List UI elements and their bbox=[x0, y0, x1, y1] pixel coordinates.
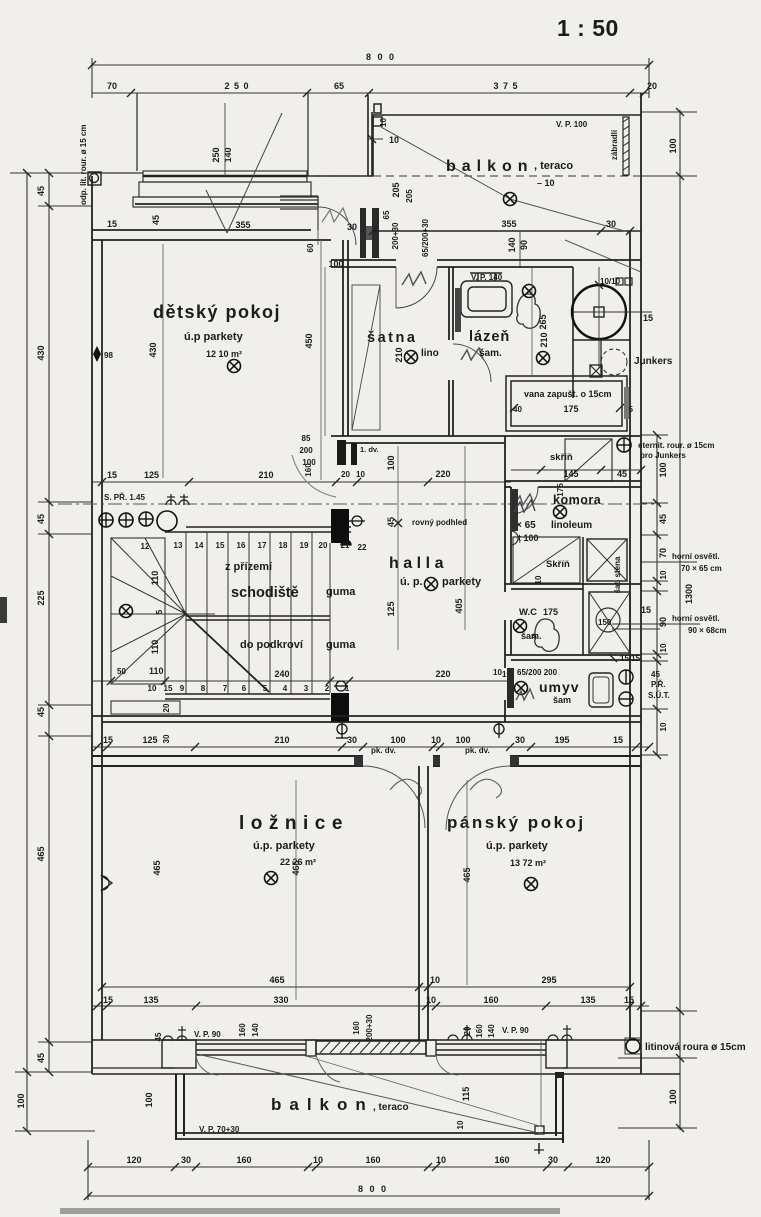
svg-text:450: 450 bbox=[304, 333, 314, 348]
svg-text:5: 5 bbox=[155, 609, 164, 614]
svg-text:140: 140 bbox=[487, 1024, 496, 1038]
svg-text:100: 100 bbox=[144, 1092, 154, 1107]
entrance steps bbox=[280, 196, 318, 230]
svg-text:Skříň: Skříň bbox=[546, 559, 570, 570]
bottom wall inner face bbox=[92, 1039, 641, 1041]
vana bathtub bbox=[506, 376, 627, 431]
vana side hatch bbox=[624, 387, 629, 419]
outer left wall bbox=[92, 176, 102, 1074]
svg-text:210: 210 bbox=[394, 347, 404, 362]
entrance door jambs (dark) bbox=[360, 208, 366, 258]
svg-text:150: 150 bbox=[598, 618, 612, 627]
svg-text:140: 140 bbox=[507, 237, 517, 252]
svg-text:2 5 0: 2 5 0 bbox=[224, 81, 249, 91]
entrance pillar bbox=[374, 104, 381, 113]
svg-text:65: 65 bbox=[382, 210, 391, 219]
svg-text:guma: guma bbox=[326, 639, 356, 651]
svg-text:20: 20 bbox=[162, 703, 171, 712]
satna door arc bbox=[396, 267, 437, 308]
satna closet diagonals bbox=[352, 285, 380, 430]
svg-text:V. P. 100: V. P. 100 bbox=[556, 120, 588, 129]
svg-text:225: 225 bbox=[36, 590, 46, 605]
svg-text:P.Ř.: P.Ř. bbox=[651, 680, 666, 689]
svg-text:125: 125 bbox=[386, 601, 396, 616]
svg-text:3 7 5: 3 7 5 bbox=[493, 81, 518, 91]
svg-text:skříň: skříň bbox=[550, 452, 573, 463]
leader V pointer in terrace bbox=[206, 113, 282, 233]
svg-text:30: 30 bbox=[181, 1155, 191, 1165]
eternit symbol bbox=[617, 438, 631, 452]
svg-text:160: 160 bbox=[352, 1021, 361, 1035]
stair landing bbox=[111, 538, 165, 684]
svg-text:2: 2 bbox=[325, 684, 330, 693]
top dimension line 800 bbox=[92, 58, 649, 98]
flag symbol top bbox=[341, 516, 365, 545]
svg-text:10: 10 bbox=[659, 570, 668, 579]
svg-text:200+30: 200+30 bbox=[365, 1014, 374, 1041]
flag symbols at chimney 2 bbox=[334, 681, 348, 738]
litinova roura bbox=[626, 1039, 640, 1053]
svg-text:6: 6 bbox=[242, 684, 247, 693]
komora door arc bbox=[511, 487, 538, 514]
svg-text:160: 160 bbox=[483, 995, 498, 1005]
svg-text:175: 175 bbox=[563, 404, 578, 414]
svg-text:100: 100 bbox=[16, 1093, 26, 1108]
wall wc inner vertical bbox=[582, 537, 584, 655]
svg-text:45: 45 bbox=[658, 514, 668, 524]
detsky pokoj 430 dim lines bbox=[162, 244, 164, 478]
svg-text:vana zapušt. o 15cm: vana zapušt. o 15cm bbox=[524, 389, 612, 399]
svg-text:1 : 50: 1 : 50 bbox=[557, 15, 619, 41]
svg-text:20: 20 bbox=[341, 470, 350, 479]
svg-text:10: 10 bbox=[313, 1155, 323, 1165]
shower / sprcha box bbox=[589, 592, 630, 653]
svg-text:140: 140 bbox=[251, 1023, 260, 1037]
svg-text:65/200 200: 65/200 200 bbox=[517, 668, 558, 677]
svg-text:120: 120 bbox=[126, 1155, 141, 1165]
umyv room bbox=[515, 682, 528, 695]
svg-text:pk. dv.: pk. dv. bbox=[465, 746, 490, 755]
svg-text:, teraco: , teraco bbox=[373, 1102, 409, 1113]
balcony left pillar bbox=[373, 117, 382, 126]
svg-text:21: 21 bbox=[341, 541, 350, 550]
svg-text:220: 220 bbox=[435, 669, 450, 679]
svg-text:10: 10 bbox=[456, 1120, 465, 1129]
svg-text:10: 10 bbox=[534, 575, 543, 584]
svg-text:160: 160 bbox=[304, 463, 313, 477]
svg-text:10: 10 bbox=[148, 684, 157, 693]
svg-text:linoleum: linoleum bbox=[551, 520, 592, 531]
svg-text:45: 45 bbox=[36, 707, 46, 717]
window 1 bbox=[196, 1044, 306, 1055]
svg-text:10: 10 bbox=[426, 995, 436, 1005]
svg-text:schodiště: schodiště bbox=[231, 585, 299, 601]
svg-text:20: 20 bbox=[647, 81, 657, 91]
svg-text:lázeň: lázeň bbox=[469, 329, 510, 345]
bottom total 800 line bbox=[88, 1195, 649, 1197]
up arrow diagonal bbox=[186, 614, 269, 692]
svg-text:V. P. 90: V. P. 90 bbox=[194, 1030, 221, 1039]
wall halla/komora block bbox=[505, 436, 511, 722]
tread numbers top bbox=[141, 541, 367, 552]
svg-text:100: 100 bbox=[390, 735, 405, 745]
bottom dimension chain 120/30/160/10/160/10/160/30/120 bbox=[88, 1140, 649, 1200]
pier mid1 bbox=[306, 1040, 316, 1056]
lazen door arc bbox=[453, 344, 491, 382]
lazen toilet bbox=[517, 294, 540, 328]
svg-text:220: 220 bbox=[435, 469, 450, 479]
svg-text:125: 125 bbox=[144, 470, 159, 480]
svg-text:465: 465 bbox=[269, 975, 284, 985]
top balcony slab bbox=[373, 115, 641, 231]
svg-text:× 65: × 65 bbox=[516, 520, 536, 531]
stair bottom rail bbox=[165, 694, 330, 699]
balcony centre mark bbox=[504, 193, 517, 206]
pier mid2 bbox=[426, 1040, 436, 1056]
svg-text:10: 10 bbox=[659, 643, 668, 652]
left dimension chain 45/430/45/225/45/465/45 bbox=[38, 173, 92, 1072]
door bump left wall bbox=[102, 876, 112, 890]
svg-text:405: 405 bbox=[454, 598, 464, 613]
svg-text:14: 14 bbox=[195, 541, 204, 550]
svg-text:15: 15 bbox=[613, 735, 623, 745]
svg-text:45: 45 bbox=[151, 215, 161, 225]
skrin niche above komora bbox=[565, 439, 612, 481]
wall komora/wc bbox=[505, 584, 641, 589]
svg-text:8: 8 bbox=[201, 684, 206, 693]
horni osvetl annotation 2 bbox=[612, 623, 700, 625]
svg-text:Junkers: Junkers bbox=[634, 356, 673, 367]
entrance scribble bbox=[322, 208, 348, 222]
svg-text:10: 10 bbox=[436, 1155, 446, 1165]
stair top rail bbox=[165, 527, 351, 532]
halla mid dim line bbox=[394, 519, 402, 527]
svg-text:19: 19 bbox=[300, 541, 309, 550]
svg-text:85: 85 bbox=[302, 434, 311, 443]
bottom balcony diagonal bbox=[197, 1054, 543, 1134]
svg-text:lino: lino bbox=[421, 348, 439, 359]
svg-text:200: 200 bbox=[299, 446, 313, 455]
svg-text:ú. p.: ú. p. bbox=[400, 576, 423, 588]
svg-text:100: 100 bbox=[668, 1089, 678, 1104]
svg-text:210: 210 bbox=[258, 470, 273, 480]
dim row above bedrooms bbox=[92, 746, 649, 748]
svg-text:15: 15 bbox=[624, 995, 634, 1005]
right dimension chain B 100 / 1300 / 100 bbox=[618, 110, 697, 1130]
svg-text:205: 205 bbox=[405, 189, 414, 203]
svg-text:120: 120 bbox=[595, 1155, 610, 1165]
svg-text:210: 210 bbox=[274, 735, 289, 745]
svg-text:guma: guma bbox=[326, 586, 356, 598]
svg-text:125: 125 bbox=[142, 735, 157, 745]
window arcs bottom bbox=[196, 1055, 218, 1075]
svg-text:45: 45 bbox=[651, 670, 660, 679]
svg-text:8 0 0: 8 0 0 bbox=[358, 1184, 388, 1194]
svg-text:eternit. rour. ø 15cm: eternit. rour. ø 15cm bbox=[638, 441, 714, 450]
svg-text:10: 10 bbox=[430, 975, 440, 985]
svg-text:10: 10 bbox=[431, 735, 441, 745]
svg-text:465: 465 bbox=[152, 860, 162, 875]
svg-text:135: 135 bbox=[580, 995, 595, 1005]
svg-text:10: 10 bbox=[493, 668, 502, 677]
svg-text:1. dv.: 1. dv. bbox=[360, 445, 379, 454]
svg-text:160: 160 bbox=[475, 1024, 484, 1038]
dim row 15/135/330/10/160/135/15 bbox=[92, 1005, 649, 1007]
svg-text:22: 22 bbox=[358, 543, 367, 552]
svg-text:pk. dv.: pk. dv. bbox=[371, 746, 396, 755]
svg-text:W.C: W.C bbox=[519, 607, 537, 618]
svg-text:140: 140 bbox=[223, 147, 233, 162]
svg-text:V. P. 140: V. P. 140 bbox=[471, 273, 503, 282]
svg-text:18: 18 bbox=[279, 541, 288, 550]
pier left bbox=[162, 1040, 196, 1068]
horni osvetl annotation 1 bbox=[641, 561, 697, 563]
porch columns bbox=[99, 513, 113, 527]
svg-text:430: 430 bbox=[36, 345, 46, 360]
svg-text:100: 100 bbox=[386, 455, 396, 470]
svg-text:horní osvětl.: horní osvětl. bbox=[672, 552, 720, 561]
svg-text:S.Ú.T.: S.Ú.T. bbox=[648, 691, 670, 700]
svg-text:17: 17 bbox=[258, 541, 267, 550]
window 3 bbox=[436, 1044, 546, 1055]
balcony right hatched wall bbox=[623, 117, 629, 175]
svg-text:50: 50 bbox=[117, 667, 126, 676]
svg-text:, teraco: , teraco bbox=[534, 160, 573, 172]
svg-text:ț 100: ț 100 bbox=[518, 533, 539, 543]
svg-text:rovný podhled: rovný podhled bbox=[412, 518, 467, 527]
dim row at stair bottom bbox=[92, 680, 511, 682]
svg-text:265: 265 bbox=[538, 314, 548, 329]
svg-text:110: 110 bbox=[149, 666, 164, 676]
entrance door arc bbox=[318, 207, 356, 245]
svg-text:9: 9 bbox=[180, 684, 185, 693]
svg-text:ložnice: ložnice bbox=[239, 813, 349, 834]
svg-text:15: 15 bbox=[641, 605, 651, 615]
svg-text:15: 15 bbox=[107, 219, 117, 229]
svg-text:115: 115 bbox=[461, 1087, 471, 1102]
svg-text:430: 430 bbox=[148, 342, 158, 357]
black chimney 2 bbox=[331, 693, 349, 722]
anchor marks bbox=[166, 494, 189, 505]
umyv jamb dark bbox=[507, 668, 514, 708]
svg-text:175: 175 bbox=[543, 607, 558, 617]
svg-text:45: 45 bbox=[36, 1053, 46, 1063]
lazen centre mark bbox=[537, 352, 550, 365]
svg-text:1300: 1300 bbox=[684, 584, 694, 604]
stair wall right with black chimney 1 bbox=[331, 509, 349, 543]
svg-text:z přízemí: z přízemí bbox=[225, 561, 273, 573]
dim row 465/10/295 bbox=[102, 986, 630, 988]
svg-text:12 10 m²: 12 10 m² bbox=[206, 349, 242, 359]
stove circle bbox=[572, 285, 626, 339]
svg-text:205: 205 bbox=[391, 182, 401, 197]
svg-text:250: 250 bbox=[211, 147, 221, 162]
lazen wall hatch bbox=[455, 288, 461, 332]
svg-text:parkety: parkety bbox=[442, 576, 482, 588]
svg-text:15: 15 bbox=[164, 684, 173, 693]
bottom edge smudge bbox=[60, 1208, 560, 1214]
svg-text:160: 160 bbox=[236, 1155, 251, 1165]
svg-text:295: 295 bbox=[541, 975, 556, 985]
umyv sink bbox=[589, 673, 613, 707]
balcony eave dashed bbox=[308, 175, 641, 177]
svg-text:13 72 m²: 13 72 m² bbox=[510, 858, 546, 868]
svg-text:balkon: balkon bbox=[446, 158, 534, 175]
svg-text:12: 12 bbox=[141, 542, 150, 551]
svg-text:65/200+30: 65/200+30 bbox=[421, 218, 430, 257]
outer right wall bbox=[630, 93, 641, 1074]
balcony diagonal bbox=[381, 127, 628, 232]
junkers heater bbox=[601, 349, 627, 375]
svg-text:45: 45 bbox=[36, 514, 46, 524]
axis dash-dot line bbox=[58, 503, 660, 505]
svg-text:70 × 65 cm: 70 × 65 cm bbox=[681, 564, 722, 573]
bottom balcony slab bbox=[176, 1133, 563, 1139]
svg-text:15: 15 bbox=[107, 470, 117, 480]
odp pipe square top-left bbox=[88, 172, 101, 185]
stove niche bottom wall bbox=[573, 339, 630, 341]
svg-text:200+30: 200+30 bbox=[391, 222, 400, 249]
svg-text:70: 70 bbox=[658, 548, 668, 558]
svg-text:odp. lit. rour. ø 15 cm: odp. lit. rour. ø 15 cm bbox=[79, 125, 88, 205]
svg-text:15: 15 bbox=[103, 735, 113, 745]
flag symbol mid bbox=[494, 722, 504, 738]
right dimension chain A 100/45/70/10/90/10 bbox=[641, 435, 668, 755]
svg-text:V. P. 70+30: V. P. 70+30 bbox=[199, 1125, 240, 1134]
svg-text:160: 160 bbox=[238, 1023, 247, 1037]
svg-text:dětský pokoj: dětský pokoj bbox=[153, 302, 281, 322]
left outer dimension line 100 bbox=[10, 173, 95, 1131]
svg-text:70: 70 bbox=[107, 81, 117, 91]
svg-text:40: 40 bbox=[513, 405, 522, 414]
svg-text:30: 30 bbox=[162, 734, 171, 743]
svg-text:pro Junkers: pro Junkers bbox=[640, 451, 686, 460]
svg-text:465: 465 bbox=[36, 846, 46, 861]
svg-text:30: 30 bbox=[606, 219, 616, 229]
svg-text:90: 90 bbox=[658, 617, 668, 627]
wall lazen/stove niche bbox=[572, 267, 574, 398]
svg-text:65: 65 bbox=[334, 81, 344, 91]
svg-text:do podkroví: do podkroví bbox=[240, 639, 304, 651]
svg-text:330: 330 bbox=[273, 995, 288, 1005]
svg-text:– 10: – 10 bbox=[537, 178, 555, 188]
halla dims bbox=[397, 446, 399, 650]
stair mid rail bbox=[186, 616, 330, 620]
window diamond on left wall bbox=[93, 346, 101, 362]
svg-text:30: 30 bbox=[515, 735, 525, 745]
dim row under detsky pokoj bbox=[92, 481, 511, 483]
top wall satna/lazen bbox=[331, 260, 641, 267]
svg-text:16: 16 bbox=[237, 541, 246, 550]
svg-text:30: 30 bbox=[347, 735, 357, 745]
svg-text:30: 30 bbox=[548, 1155, 558, 1165]
door jambs below satna wall bbox=[337, 440, 346, 465]
loznice door arc bbox=[363, 766, 425, 828]
svg-text:15/15: 15/15 bbox=[620, 654, 641, 663]
pansky door arc bbox=[446, 766, 510, 830]
closet right with X bbox=[587, 539, 627, 581]
svg-text:šat. stěna: šat. stěna bbox=[613, 556, 622, 593]
svg-text:100: 100 bbox=[658, 462, 668, 477]
svg-text:60: 60 bbox=[306, 243, 315, 252]
svg-text:90 × 68cm: 90 × 68cm bbox=[688, 626, 726, 635]
svg-text:100: 100 bbox=[668, 138, 678, 153]
wall wc/umyv bbox=[505, 655, 641, 660]
WC toilet bbox=[535, 619, 559, 651]
window 2 hatched bbox=[316, 1041, 426, 1054]
niche under landing bbox=[111, 701, 180, 714]
svg-text:pánský pokoj: pánský pokoj bbox=[447, 813, 586, 832]
svg-text:4: 4 bbox=[283, 684, 288, 693]
bottom wall of satna+lazen bbox=[331, 436, 641, 443]
terrace outline bbox=[137, 93, 308, 176]
svg-text:110: 110 bbox=[150, 571, 160, 586]
svg-text:100: 100 bbox=[455, 735, 470, 745]
svg-text:horní osvětl.: horní osvětl. bbox=[672, 614, 720, 623]
svg-text:98: 98 bbox=[104, 351, 113, 360]
svg-text:15: 15 bbox=[103, 995, 113, 1005]
svg-text:145: 145 bbox=[563, 469, 578, 479]
bedrooms top wall bbox=[92, 756, 641, 766]
svg-text:8 0 0: 8 0 0 bbox=[366, 52, 396, 62]
svg-text:V. P. 90: V. P. 90 bbox=[502, 1026, 529, 1035]
lazen washbasin bbox=[461, 273, 512, 317]
bottom wall outer face bbox=[92, 1073, 680, 1075]
satna door scribble bbox=[402, 272, 426, 285]
komora skrin bbox=[513, 537, 580, 583]
svg-text:15: 15 bbox=[643, 313, 653, 323]
svg-text:⌀: ⌀ bbox=[529, 633, 538, 638]
svg-text:balkon: balkon bbox=[271, 1095, 374, 1114]
svg-text:210: 210 bbox=[539, 332, 549, 347]
komora door jamb dark bbox=[511, 489, 518, 531]
svg-text:5: 5 bbox=[263, 684, 268, 693]
bottom balcony right wall bbox=[556, 1072, 563, 1143]
svg-text:šatna: šatna bbox=[367, 330, 417, 346]
svg-text:10: 10 bbox=[379, 118, 388, 127]
svg-text:ú.p parkety: ú.p parkety bbox=[184, 331, 244, 343]
svg-text:13: 13 bbox=[174, 541, 183, 550]
vent symbols right bbox=[619, 670, 633, 706]
svg-text:175: 175 bbox=[556, 483, 565, 497]
wall loznice/pansky bbox=[419, 766, 428, 1040]
stair treads upper bbox=[186, 532, 330, 694]
svg-text:umyv: umyv bbox=[539, 679, 580, 695]
svg-text:110: 110 bbox=[150, 640, 160, 655]
top wall of detsky pokoj bbox=[92, 230, 331, 240]
svg-text:45: 45 bbox=[617, 469, 627, 479]
svg-text:20: 20 bbox=[319, 541, 328, 550]
svg-text:45: 45 bbox=[36, 186, 46, 196]
terrace steps bbox=[92, 171, 318, 207]
svg-text:195: 195 bbox=[554, 735, 569, 745]
komora top wall bbox=[505, 481, 641, 487]
svg-text:90: 90 bbox=[519, 240, 529, 250]
svg-text:45: 45 bbox=[386, 517, 396, 527]
top dimension chain 70/250/65/375/20 bbox=[92, 92, 649, 94]
svg-text:15: 15 bbox=[216, 541, 225, 550]
svg-text:litinová roura ø 15cm: litinová roura ø 15cm bbox=[645, 1042, 746, 1053]
svg-text:355: 355 bbox=[235, 220, 250, 230]
wall detsky/satna bbox=[343, 240, 348, 436]
svg-text:240: 240 bbox=[274, 669, 289, 679]
wall satna/lazen bbox=[449, 267, 453, 436]
entrance side wall bbox=[306, 95, 373, 176]
svg-text:šam.: šam. bbox=[479, 348, 502, 359]
svg-text:135: 135 bbox=[143, 995, 158, 1005]
svg-text:160: 160 bbox=[365, 1155, 380, 1165]
svg-text:šam: šam bbox=[553, 695, 571, 705]
